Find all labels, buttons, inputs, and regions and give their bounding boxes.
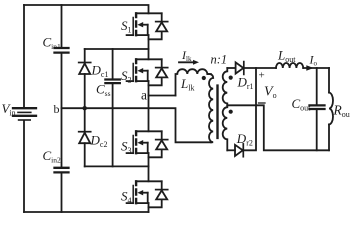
transformer secondary bottom: [223, 105, 228, 150]
wire Cin branch upper: [61, 5, 63, 47]
transformer secondary top: [223, 68, 228, 105]
inductor Llk: [176, 69, 211, 95]
wire top rail: [24, 5, 149, 13]
node junction dot: [83, 106, 87, 110]
diode Dc2: [79, 108, 91, 166]
svg-text:Vo: Vo: [264, 85, 277, 101]
wire bottom rail: [24, 211, 149, 213]
node primary dot: [202, 76, 206, 80]
svg-text:S3: S3: [121, 139, 132, 156]
svg-text:S1: S1: [121, 18, 132, 35]
diode Dr1: [227, 62, 276, 75]
wire midrail S1-S2: [148, 35, 150, 59]
svg-text:S2: S2: [121, 68, 132, 85]
node a wire: [149, 95, 176, 97]
svg-text:+: +: [259, 70, 265, 82]
inductor Lout: [276, 63, 303, 68]
transformer T1 primary: [207, 74, 213, 142]
resistor Rout: [329, 68, 333, 150]
transformer core: [217, 85, 218, 139]
node secondary dot top: [229, 76, 233, 80]
wire left rail lower: [23, 121, 25, 212]
svg-text:S4: S4: [121, 189, 132, 206]
svg-text:Cin1: Cin1: [43, 35, 62, 52]
diode S1 body: [149, 13, 168, 39]
diode Dc1: [79, 49, 91, 108]
svg-text:n:1: n:1: [211, 53, 228, 67]
svg-text:Io: Io: [309, 53, 318, 68]
svg-text:Rout: Rout: [333, 103, 350, 120]
svg-text:Dc2: Dc2: [90, 133, 108, 150]
svg-text:b: b: [54, 102, 60, 116]
diode S3 body: [149, 131, 168, 157]
wire Cin branch middle: [61, 54, 63, 167]
svg-text:Dr1: Dr1: [237, 75, 254, 92]
svg-text:Cin2: Cin2: [43, 148, 62, 165]
arrow Ilk: [179, 60, 199, 65]
wire clamp box top: [85, 48, 149, 50]
svg-text:Lout: Lout: [277, 48, 296, 65]
capacitor Cin2: [55, 168, 69, 173]
node b wire: [62, 108, 212, 142]
svg-text:Dr2: Dr2: [236, 131, 253, 148]
svg-text:Dc1: Dc1: [91, 63, 109, 80]
battery Vin: [13, 108, 36, 120]
diode S4 body: [149, 181, 168, 207]
node secondary dot bottom: [229, 110, 233, 114]
transistor S3: [127, 130, 162, 154]
capacitor Cin1: [55, 48, 69, 53]
wire Cin branch lower: [61, 173, 63, 212]
svg-text:Cout: Cout: [292, 96, 312, 113]
capacitor Css: [105, 49, 119, 166]
transistor S1: [127, 12, 162, 36]
wire output top: [303, 67, 329, 69]
svg-text:Ilk: Ilk: [181, 48, 192, 63]
transistor S4: [127, 180, 162, 204]
transistor S2: [127, 58, 162, 82]
label minus: [259, 102, 266, 104]
diode Dr2: [227, 68, 256, 157]
capacitor Cout: [310, 68, 325, 150]
wire left rail upper: [23, 5, 25, 107]
wire center tap: [227, 105, 329, 150]
wire midrail S2-S3: [148, 81, 150, 131]
svg-text:a: a: [141, 88, 147, 103]
wire midrail S4-bottom: [148, 203, 150, 212]
wire clamp box bottom: [85, 165, 149, 167]
diode S2 body: [149, 59, 168, 85]
svg-text:Llk: Llk: [180, 76, 194, 93]
wire midrail S3-S4: [148, 153, 150, 181]
svg-text:Vin: Vin: [2, 101, 16, 118]
arrow Io: [306, 65, 313, 71]
